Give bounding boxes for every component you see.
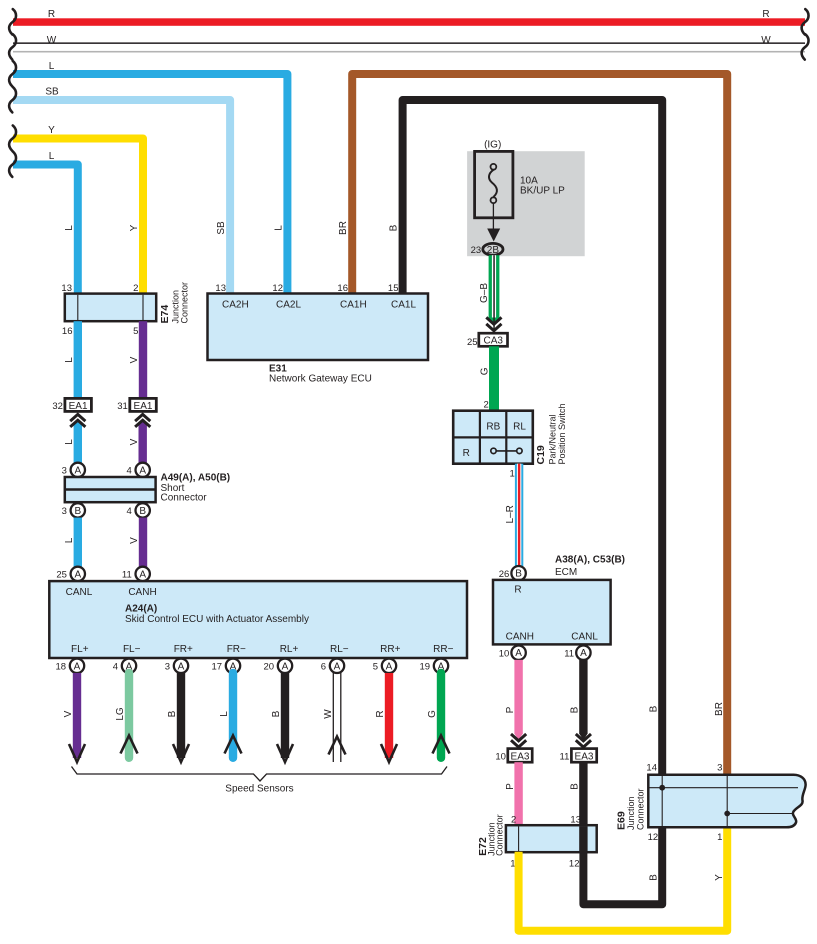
wire L (EA1 to short connector 3A) xyxy=(64,419,82,463)
wire B passing through E72 xyxy=(579,826,587,852)
wire L (short connector to A24 CANL) xyxy=(64,518,82,567)
short connector A49(A), A50(B) xyxy=(65,473,230,504)
terminal 5(A) RR+ xyxy=(373,659,396,673)
svg-text:4: 4 xyxy=(127,506,132,517)
svg-text:A: A xyxy=(334,661,341,672)
svg-text:16: 16 xyxy=(62,326,73,337)
svg-text:1: 1 xyxy=(717,832,722,843)
svg-text:3: 3 xyxy=(62,466,67,477)
ECU A24(A) Skid Control box xyxy=(49,581,467,658)
svg-text:Y: Y xyxy=(129,224,140,231)
wire Y (E72 pin 1 to E69 pin 1) xyxy=(519,827,728,931)
arrow chevron down FR+ xyxy=(173,744,189,762)
svg-text:CA3: CA3 xyxy=(483,336,503,347)
svg-text:B: B xyxy=(271,710,282,717)
svg-text:A: A xyxy=(386,661,393,672)
wire P (EA3 to E72 pin 2) xyxy=(505,762,523,825)
svg-text:BK/UP LP: BK/UP LP xyxy=(520,185,565,196)
svg-text:R: R xyxy=(762,9,769,20)
ECU ECM box A38(A), C53(B) xyxy=(493,555,625,645)
switch contacts xyxy=(491,448,522,453)
terminal 23 (2B) xyxy=(471,243,503,256)
svg-text:11: 11 xyxy=(122,570,132,581)
svg-text:EA1: EA1 xyxy=(69,401,88,412)
svg-text:A38(A), C53(B): A38(A), C53(B) xyxy=(555,555,625,566)
svg-text:12: 12 xyxy=(648,832,659,843)
connector EA3 (11) xyxy=(560,749,597,763)
wire V (short connector to A24 CANH) xyxy=(129,518,147,567)
svg-text:V: V xyxy=(129,356,140,363)
connector EA1 (31) xyxy=(117,398,156,412)
break symbol R right xyxy=(802,9,809,34)
wire R (RR+ sensor) xyxy=(375,673,393,758)
svg-text:25: 25 xyxy=(467,337,478,348)
terminal 3(A) FR+ xyxy=(165,659,188,673)
svg-text:B: B xyxy=(389,224,400,231)
svg-text:W: W xyxy=(761,35,771,46)
svg-text:G–B: G–B xyxy=(479,283,490,303)
svg-text:2: 2 xyxy=(484,399,489,410)
svg-text:V: V xyxy=(63,710,74,717)
wire G (RR- sensor) xyxy=(427,673,441,758)
svg-text:RL+: RL+ xyxy=(280,644,299,655)
terminal 10(A) xyxy=(499,646,526,660)
svg-text:B: B xyxy=(515,569,522,580)
svg-text:C19: C19 xyxy=(535,445,547,464)
wire P (ECM CANH to EA3 10) xyxy=(505,660,523,740)
double chevron down (to CA3) xyxy=(486,317,501,330)
svg-text:10: 10 xyxy=(495,752,506,763)
svg-text:Connector: Connector xyxy=(635,788,645,830)
svg-text:Junction: Junction xyxy=(626,796,636,830)
terminal 4(A) FL- xyxy=(113,659,136,673)
grey highlight box xyxy=(467,151,585,256)
svg-text:W: W xyxy=(47,35,57,46)
svg-text:EA1: EA1 xyxy=(134,401,153,412)
terminal 3(A) xyxy=(62,463,85,477)
svg-text:10: 10 xyxy=(499,648,510,659)
wire BR (E31 CA1H to E69 pin 3) xyxy=(338,74,727,775)
arrow chevron down RL+ xyxy=(277,744,293,762)
svg-text:A: A xyxy=(139,569,146,580)
wire B (FR+ sensor) xyxy=(167,673,185,758)
svg-text:L: L xyxy=(64,439,75,445)
svg-text:L–R: L–R xyxy=(505,505,516,523)
svg-text:LG: LG xyxy=(115,707,126,721)
svg-text:13: 13 xyxy=(61,283,72,294)
E31 pin 15 CA1L xyxy=(388,283,417,311)
wire L-R (C19 pin 1 to ECM 26) xyxy=(505,464,523,567)
wire W (RL- sensor) xyxy=(323,673,341,762)
svg-text:A: A xyxy=(178,661,185,672)
svg-text:CA1L: CA1L xyxy=(391,300,416,311)
E31 pin 13 CA2H xyxy=(215,283,248,311)
svg-text:FR−: FR− xyxy=(227,644,246,655)
wire fuse to terminal 2B with arrow xyxy=(487,203,500,241)
svg-text:V: V xyxy=(129,438,140,445)
svg-text:RL−: RL− xyxy=(330,644,349,655)
arrow chevron down FL+ xyxy=(69,744,85,762)
svg-text:L: L xyxy=(64,357,75,363)
svg-text:Connector: Connector xyxy=(494,814,504,856)
svg-text:3: 3 xyxy=(62,506,67,517)
svg-text:13: 13 xyxy=(570,815,581,826)
wire G-B (2B to CA3) xyxy=(479,255,500,333)
wire Y (to E74 pin 2) xyxy=(13,125,143,294)
svg-text:2: 2 xyxy=(133,283,138,294)
break symbol W left xyxy=(9,34,16,59)
svg-text:CA1H: CA1H xyxy=(340,300,367,311)
svg-text:RB: RB xyxy=(486,422,500,433)
svg-text:12: 12 xyxy=(272,283,283,294)
svg-text:R: R xyxy=(514,584,521,595)
svg-text:Y: Y xyxy=(714,874,725,881)
break symbol SB left xyxy=(9,87,16,112)
svg-text:6: 6 xyxy=(321,662,326,673)
connector EA1 (32) xyxy=(52,398,91,412)
terminal 6(A) RL- xyxy=(321,659,344,673)
svg-text:L: L xyxy=(64,537,75,543)
svg-text:A: A xyxy=(580,648,587,659)
svg-text:A: A xyxy=(282,661,289,672)
terminal 4(B) xyxy=(127,503,150,517)
svg-text:L: L xyxy=(273,225,284,231)
terminal 19(A) RR- xyxy=(420,659,449,673)
arrow chevron up RR- xyxy=(433,736,450,754)
double chevron down (to EA3 11) xyxy=(576,734,591,747)
svg-text:11: 11 xyxy=(564,648,574,659)
svg-text:2: 2 xyxy=(511,815,516,826)
terminal 11(A) xyxy=(564,646,590,660)
terminal 4(A) xyxy=(127,463,150,477)
connector CA3 (25) xyxy=(467,333,507,348)
svg-text:23: 23 xyxy=(471,245,482,256)
junction connector E72 xyxy=(477,814,597,869)
svg-text:ECM: ECM xyxy=(555,567,577,578)
double chevron up (EA1 31) xyxy=(135,414,150,427)
wire L (FR- sensor) xyxy=(219,673,233,758)
junction connector E74 xyxy=(61,282,189,337)
svg-text:19: 19 xyxy=(420,662,431,673)
break symbol L left xyxy=(9,61,16,86)
svg-text:SB: SB xyxy=(216,221,227,235)
svg-text:FL−: FL− xyxy=(123,644,141,655)
svg-text:A: A xyxy=(515,648,522,659)
ECU E31 Network Gateway box xyxy=(208,294,429,361)
wire V (E74 pin 5 to EA1) xyxy=(129,321,147,398)
wire L (E74 pin 16 to EA1) xyxy=(64,321,82,398)
svg-text:26: 26 xyxy=(499,569,510,580)
wire SB (to E31 CA2H) xyxy=(13,86,230,293)
wire V (EA1 to short connector 4A) xyxy=(129,419,147,463)
wire W (horizontal bus) xyxy=(13,35,805,52)
svg-text:L: L xyxy=(219,711,230,717)
svg-text:11: 11 xyxy=(560,752,570,763)
terminal 25(A) xyxy=(56,567,85,581)
svg-text:V: V xyxy=(129,537,140,544)
svg-text:CANL: CANL xyxy=(66,587,93,598)
svg-text:5: 5 xyxy=(373,662,378,673)
svg-text:B: B xyxy=(649,705,660,712)
svg-text:BR: BR xyxy=(714,702,725,716)
terminal 17(A) FR- xyxy=(212,659,241,673)
connector EA3 (10) xyxy=(495,749,532,763)
wire L (to E31 CA2L) xyxy=(13,61,287,294)
svg-text:B: B xyxy=(570,706,581,713)
svg-text:EA3: EA3 xyxy=(511,751,530,762)
double chevron down (to EA3 10) xyxy=(511,734,526,747)
fuse 10A BK/UP LP xyxy=(475,151,566,217)
double chevron up (EA1 32) xyxy=(70,414,85,427)
svg-text:Position Switch: Position Switch xyxy=(557,403,567,464)
svg-text:RR−: RR− xyxy=(433,644,453,655)
svg-text:CANH: CANH xyxy=(128,587,156,598)
svg-text:Speed Sensors: Speed Sensors xyxy=(225,784,293,795)
svg-text:EA3: EA3 xyxy=(575,751,594,762)
svg-text:CANL: CANL xyxy=(571,632,598,643)
svg-text:A: A xyxy=(74,661,81,672)
svg-text:B: B xyxy=(167,710,178,717)
break symbol R left xyxy=(9,9,16,34)
wire B (EA3 to E72 pin 13) xyxy=(570,762,588,825)
svg-text:17: 17 xyxy=(212,662,223,673)
svg-text:R: R xyxy=(463,448,470,459)
svg-text:P: P xyxy=(505,706,516,713)
svg-text:Network Gateway ECU: Network Gateway ECU xyxy=(269,374,372,385)
svg-text:4: 4 xyxy=(127,466,132,477)
terminal 3(B) xyxy=(62,503,85,517)
terminal 20(A) RL+ xyxy=(264,659,293,673)
arrow chevron up RL- xyxy=(329,737,346,755)
wire LG (FL- sensor) xyxy=(115,673,129,758)
svg-text:(IG): (IG) xyxy=(484,140,501,151)
svg-text:5: 5 xyxy=(133,326,138,337)
svg-text:E74: E74 xyxy=(159,305,171,324)
wire B (E69 pin 12 to E72 pin 12) xyxy=(583,827,662,904)
svg-text:B: B xyxy=(139,506,146,517)
svg-text:20: 20 xyxy=(264,662,275,673)
svg-text:L: L xyxy=(49,61,55,72)
svg-text:FR+: FR+ xyxy=(174,644,193,655)
svg-text:Connector: Connector xyxy=(161,493,208,504)
svg-text:G: G xyxy=(479,367,490,375)
svg-text:15: 15 xyxy=(388,283,399,294)
svg-text:CA2H: CA2H xyxy=(222,300,249,311)
svg-text:4: 4 xyxy=(113,662,118,673)
E31 pin 12 CA2L xyxy=(272,283,301,311)
terminal 18(A) xyxy=(56,659,85,673)
terminal 26(B) xyxy=(499,566,526,580)
svg-text:A: A xyxy=(74,465,81,476)
svg-text:CA2L: CA2L xyxy=(276,300,301,311)
svg-text:25: 25 xyxy=(56,570,67,581)
wire B (E31 CA1L to E69 pin 14) xyxy=(389,100,663,775)
svg-text:14: 14 xyxy=(646,762,657,773)
svg-text:13: 13 xyxy=(215,283,226,294)
break symbol L2 left xyxy=(9,152,16,177)
wire B (RL+ sensor) xyxy=(271,673,289,758)
break symbol Y left xyxy=(9,126,16,151)
svg-text:CANH: CANH xyxy=(506,632,534,643)
wire R (horizontal bus top) xyxy=(13,9,805,26)
svg-text:A: A xyxy=(74,569,81,580)
svg-text:B: B xyxy=(649,874,660,881)
break symbol W right xyxy=(802,34,809,59)
svg-text:1: 1 xyxy=(510,468,515,479)
svg-text:L: L xyxy=(49,151,55,162)
svg-text:32: 32 xyxy=(52,401,63,412)
svg-text:Connector: Connector xyxy=(180,282,190,324)
svg-text:RL: RL xyxy=(513,422,526,433)
svg-text:Skid Control ECU with Actuator: Skid Control ECU with Actuator Assembly xyxy=(125,614,309,625)
svg-text:2B: 2B xyxy=(487,245,500,256)
wire L (to E74 pin 13) xyxy=(13,151,78,294)
svg-text:R: R xyxy=(48,9,55,20)
svg-text:RR+: RR+ xyxy=(380,644,400,655)
svg-text:16: 16 xyxy=(337,283,348,294)
svg-text:SB: SB xyxy=(45,86,59,97)
svg-text:A49(A), A50(B): A49(A), A50(B) xyxy=(161,473,231,484)
arrow chevron up FL- xyxy=(121,736,138,754)
terminal 11(A) xyxy=(122,567,150,581)
svg-text:Park/Neutral: Park/Neutral xyxy=(547,414,557,464)
svg-text:31: 31 xyxy=(117,401,128,412)
wire V (FL+ sensor) xyxy=(63,673,81,758)
svg-text:R: R xyxy=(375,710,386,717)
svg-text:L: L xyxy=(64,225,75,231)
svg-text:18: 18 xyxy=(56,662,67,673)
svg-text:G: G xyxy=(427,710,438,718)
brace Speed Sensors xyxy=(72,767,448,795)
wire B (ECM CANL to EA3 11) xyxy=(570,660,588,740)
svg-text:BR: BR xyxy=(338,221,349,235)
svg-text:3: 3 xyxy=(717,762,722,773)
svg-text:A: A xyxy=(139,465,146,476)
svg-text:3: 3 xyxy=(165,662,170,673)
svg-text:FL+: FL+ xyxy=(71,644,89,655)
svg-text:B: B xyxy=(570,783,581,790)
svg-text:P: P xyxy=(505,783,516,790)
switch C19 Park/Neutral Position Switch xyxy=(453,403,567,464)
junction connector E69 xyxy=(616,762,806,843)
svg-text:B: B xyxy=(74,506,81,517)
svg-text:12: 12 xyxy=(569,858,580,869)
E31 pin 16 CA1H xyxy=(337,283,366,311)
arrow chevron up FR- xyxy=(225,736,242,754)
svg-text:Y: Y xyxy=(48,125,55,136)
wire G (CA3 to C19 pin 2) xyxy=(479,346,499,410)
svg-text:W: W xyxy=(323,709,334,719)
arrow chevron down RR+ xyxy=(381,744,397,762)
